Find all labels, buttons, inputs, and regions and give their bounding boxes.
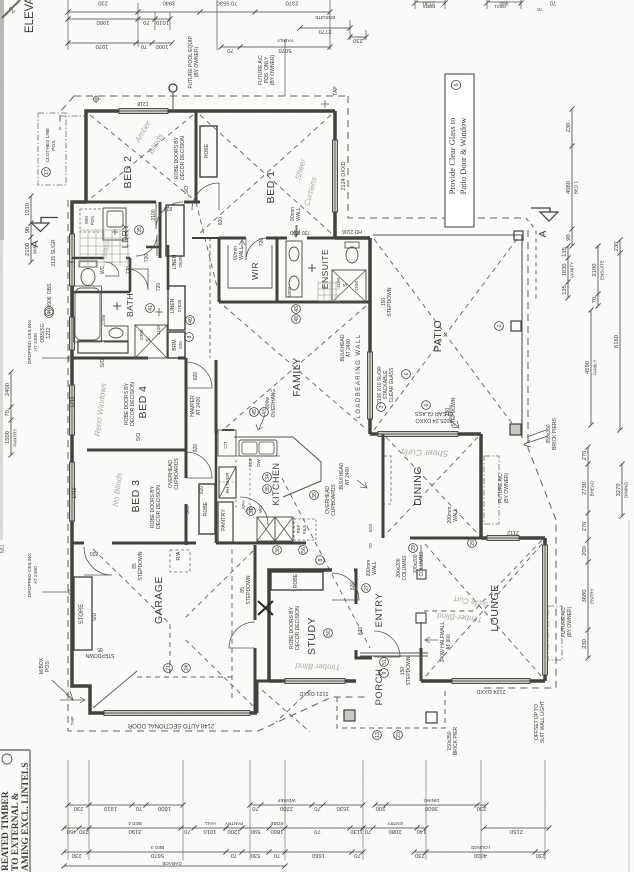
- svg-text:35: 35: [137, 227, 143, 233]
- svg-text:HALL: HALL: [204, 821, 216, 826]
- svg-text:31: 31: [249, 508, 255, 514]
- svg-text:720: 720: [144, 254, 150, 263]
- svg-text:70: 70: [252, 805, 258, 811]
- svg-text:45: 45: [252, 409, 258, 415]
- svg-text:35: 35: [312, 492, 318, 498]
- svg-text:ENTRY: ENTRY: [589, 588, 594, 604]
- svg-text:COLUMNS: COLUMNS: [402, 555, 408, 581]
- svg-text:WIR: WIR: [250, 262, 260, 280]
- svg-text:29: 29: [470, 540, 476, 546]
- svg-text:WM: WM: [84, 216, 89, 224]
- svg-text:CUPBOARDS: CUPBOARDS: [174, 458, 180, 490]
- svg-text:1100: 1100: [336, 278, 342, 289]
- svg-text:2115 SL/GR: 2115 SL/GR: [51, 239, 57, 267]
- svg-text:41: 41: [148, 305, 154, 311]
- svg-text:AMING EXCL. LINTELS: AMING EXCL. LINTELS: [21, 763, 31, 871]
- svg-text:43: 43: [262, 409, 268, 415]
- svg-text:3940: 3940: [163, 0, 176, 6]
- svg-text:Patio Door & Window: Patio Door & Window: [458, 117, 468, 195]
- svg-text:2400: 2400: [5, 383, 11, 396]
- svg-text:29: 29: [411, 545, 417, 551]
- svg-text:2124 DXXD: 2124 DXXD: [341, 161, 347, 190]
- svg-text:3680: 3680: [582, 590, 588, 603]
- svg-text:BED 4: BED 4: [128, 821, 142, 826]
- svg-text:90: 90: [566, 234, 572, 240]
- svg-text:3: 3: [379, 405, 385, 408]
- svg-text:Sheer Curls: Sheer Curls: [400, 447, 448, 459]
- svg-text:720: 720: [259, 238, 265, 247]
- svg-text:70: 70: [354, 852, 360, 858]
- svg-text:230: 230: [72, 852, 82, 858]
- svg-text:DBX1: DBX1: [494, 4, 506, 9]
- svg-text:PANTRY: PANTRY: [221, 509, 227, 531]
- svg-text:(BY OWNER): (BY OWNER): [270, 54, 276, 85]
- svg-text:820: 820: [218, 217, 224, 226]
- svg-text:BED 2: BED 2: [122, 156, 134, 189]
- svg-text:LINEN: LINEN: [170, 298, 176, 313]
- svg-text:STEPDOWN: STEPDOWN: [246, 575, 252, 604]
- svg-text:WALL: WALL: [296, 207, 302, 221]
- svg-text:34: 34: [265, 474, 271, 480]
- svg-text:1218: 1218: [137, 100, 148, 106]
- svg-text:KITCHEN: KITCHEN: [271, 462, 281, 505]
- svg-text:GARAGE: GARAGE: [153, 576, 165, 624]
- svg-text:1800: 1800: [287, 286, 293, 297]
- svg-text:WALL: WALL: [239, 246, 245, 260]
- svg-text:1530: 1530: [337, 805, 350, 811]
- svg-text:ROBE: ROBE: [270, 821, 283, 826]
- svg-text:DW: DW: [256, 459, 261, 467]
- svg-text:DECOR DECISION: DECOR DECISION: [130, 382, 136, 426]
- svg-text:CLEAR GLASS: CLEAR GLASS: [415, 410, 454, 416]
- svg-text:OVERHANG: OVERHANG: [271, 389, 277, 418]
- svg-text:AT 2400: AT 2400: [346, 339, 352, 358]
- svg-text:1212: 1212: [46, 327, 52, 338]
- svg-text:PANTRY: PANTRY: [225, 821, 243, 826]
- svg-text:70: 70: [314, 828, 320, 834]
- svg-text:90: 90: [25, 227, 31, 233]
- svg-text:43: 43: [294, 306, 300, 312]
- svg-text:POS.: POS.: [45, 660, 51, 672]
- svg-text:27620: 27620: [177, 299, 182, 312]
- svg-text:17: 17: [44, 169, 50, 175]
- svg-text:2100: 2100: [592, 264, 598, 277]
- svg-text:230: 230: [614, 242, 620, 252]
- svg-text:S/O: S/O: [136, 433, 142, 442]
- svg-text:70: 70: [592, 297, 598, 303]
- svg-text:1500: 1500: [5, 431, 11, 444]
- svg-text:85: 85: [97, 646, 103, 652]
- svg-text:70: 70: [550, 0, 556, 6]
- svg-text:51: 51: [382, 659, 388, 665]
- svg-text:ROBE: ROBE: [203, 501, 209, 516]
- svg-text:SSS: SSS: [248, 458, 253, 467]
- svg-text:1960: 1960: [97, 19, 110, 25]
- svg-text:STEPDOWN: STEPDOWN: [387, 287, 393, 316]
- svg-text:LDRY: LDRY: [120, 224, 130, 249]
- svg-text:C/T: C/T: [223, 441, 228, 449]
- svg-text:3600: 3600: [425, 805, 438, 811]
- svg-text:70: 70: [365, 828, 371, 834]
- svg-text:230: 230: [477, 805, 487, 811]
- svg-text:REF: REF: [296, 524, 301, 533]
- svg-text:820: 820: [358, 627, 364, 636]
- svg-text:STEPDOWN: STEPDOWN: [138, 551, 144, 580]
- svg-text:56: 56: [301, 547, 307, 553]
- svg-text:(BY OWNER): (BY OWNER): [194, 46, 200, 77]
- svg-text:Timber Blind: Timber Blind: [295, 661, 341, 672]
- svg-text:13: 13: [375, 732, 381, 738]
- svg-text:230: 230: [415, 852, 425, 858]
- svg-text:CLOTHES LINE: CLOTHES LINE: [45, 128, 51, 163]
- svg-text:A: A: [537, 230, 549, 237]
- svg-text:2730: 2730: [582, 482, 588, 495]
- svg-text:70: 70: [184, 828, 190, 834]
- svg-text:WIR: WIR: [32, 244, 37, 254]
- svg-text:5670: 5670: [151, 852, 164, 858]
- svg-text:720: 720: [156, 283, 162, 292]
- svg-text:R/A: R/A: [176, 551, 182, 561]
- svg-text:3270: 3270: [616, 484, 622, 497]
- svg-text:1010: 1010: [25, 203, 31, 216]
- svg-text:OBS: OBS: [47, 283, 53, 294]
- svg-text:2/620: 2/620: [178, 256, 183, 268]
- svg-text:HD 2106: HD 2106: [342, 228, 362, 234]
- svg-text:70: 70: [136, 805, 142, 811]
- svg-text:BHEAD: BHEAD: [589, 480, 594, 497]
- svg-text:FAMILY: FAMILY: [291, 357, 303, 397]
- svg-text:1200: 1200: [228, 828, 241, 834]
- svg-text:2148 AUTO SECTIONAL DOOR: 2148 AUTO SECTIONAL DOOR: [127, 722, 214, 728]
- svg-text:49: 49: [294, 316, 300, 322]
- svg-text:1100: 1100: [354, 281, 360, 292]
- svg-text:2150: 2150: [510, 828, 523, 834]
- svg-text:6160: 6160: [614, 335, 620, 348]
- svg-text:APH: APH: [241, 500, 246, 509]
- svg-text:STEPDOWN: STEPDOWN: [406, 656, 412, 685]
- svg-text:70: 70: [368, 543, 374, 549]
- svg-text:ENSUITE: ENSUITE: [320, 249, 330, 289]
- svg-text:BED 1: BED 1: [265, 171, 277, 204]
- svg-text:70: 70: [537, 7, 543, 12]
- svg-text:2100: 2100: [25, 243, 31, 256]
- svg-text:70: 70: [231, 852, 237, 858]
- svg-text:(BY OWNER): (BY OWNER): [504, 472, 510, 503]
- svg-text:AT 900: AT 900: [446, 634, 452, 650]
- svg-text:4080: 4080: [566, 181, 572, 194]
- svg-text:820: 820: [90, 550, 99, 556]
- svg-text:REATED TIMBER: REATED TIMBER: [1, 791, 11, 871]
- svg-text:WO: WO: [258, 505, 263, 513]
- svg-text:AT 2400: AT 2400: [196, 397, 202, 416]
- svg-text:8: 8: [187, 335, 193, 338]
- svg-text:ELEVA: ELEVA: [24, 0, 36, 33]
- svg-text:820: 820: [350, 582, 356, 591]
- svg-text:S: S: [146, 338, 152, 342]
- svg-text:NG: NG: [0, 544, 6, 553]
- svg-text:610: 610: [368, 524, 374, 532]
- svg-text:0906: 0906: [47, 296, 53, 307]
- svg-text:270: 270: [582, 522, 588, 532]
- svg-text:230: 230: [353, 37, 363, 43]
- svg-text:24: 24: [184, 665, 190, 671]
- svg-text:35: 35: [265, 486, 271, 492]
- svg-text:36: 36: [275, 547, 281, 553]
- svg-text:COLUMNS: COLUMNS: [419, 551, 425, 577]
- svg-text:AT 2300: AT 2300: [33, 566, 39, 584]
- svg-text:1218: 1218: [72, 487, 78, 498]
- svg-text:STORE: STORE: [79, 604, 85, 625]
- svg-text:2121 DXXD: 2121 DXXD: [299, 690, 328, 696]
- svg-text:70: 70: [314, 805, 320, 811]
- svg-text:WD/REF: WD/REF: [277, 798, 295, 803]
- svg-text:DBRS: DBRS: [423, 4, 436, 9]
- svg-text:70: 70: [141, 43, 147, 49]
- svg-text:720 CSD: 720 CSD: [289, 229, 310, 235]
- svg-text:1200: 1200: [101, 314, 107, 325]
- svg-text:6: 6: [454, 83, 460, 86]
- svg-text:ROBE: ROBE: [204, 143, 210, 158]
- svg-text:4590: 4590: [585, 361, 591, 374]
- svg-text:2112: 2112: [507, 529, 519, 535]
- svg-text:ENSUITE: ENSUITE: [315, 15, 335, 20]
- svg-text:2770: 2770: [319, 28, 332, 34]
- svg-text:1218: 1218: [70, 396, 76, 407]
- svg-text:230: 230: [536, 852, 546, 858]
- svg-text:STEPDOWN: STEPDOWN: [85, 652, 114, 658]
- svg-text:230: 230: [582, 639, 588, 649]
- svg-text:2200: 2200: [280, 805, 293, 811]
- svg-text:23: 23: [396, 732, 402, 738]
- svg-text:70: 70: [227, 47, 233, 53]
- svg-text:1100: 1100: [156, 325, 162, 336]
- svg-text:1130: 1130: [350, 828, 362, 834]
- svg-text:1010: 1010: [204, 828, 217, 834]
- svg-text:2100: 2100: [151, 209, 157, 220]
- svg-text:DECOR DECISION: DECOR DECISION: [180, 136, 186, 180]
- svg-text:2: 2: [497, 324, 503, 327]
- svg-text:DINING: DINING: [412, 466, 424, 506]
- svg-text:2370: 2370: [286, 0, 299, 6]
- svg-text:1970: 1970: [96, 43, 109, 49]
- svg-text:S/O: S/O: [184, 186, 190, 195]
- svg-text:27: 27: [364, 585, 370, 591]
- svg-text:WALL: WALL: [453, 508, 459, 522]
- svg-text:DINING: DINING: [423, 798, 440, 803]
- svg-text:1660: 1660: [312, 852, 325, 858]
- svg-text:P&S.: P&S.: [302, 524, 307, 534]
- svg-text:1910: 1910: [104, 805, 117, 811]
- svg-text:S: S: [343, 283, 349, 287]
- svg-text:SUIT WALL LIGHT: SUIT WALL LIGHT: [540, 701, 546, 743]
- svg-text:AT 2400: AT 2400: [345, 467, 351, 486]
- svg-text:PATIO: PATIO: [432, 320, 444, 352]
- svg-text:140: 140: [417, 828, 427, 834]
- svg-text:S/O: S/O: [100, 359, 106, 368]
- svg-text:S/D: S/D: [92, 612, 98, 621]
- svg-text:270: 270: [582, 451, 588, 461]
- svg-text:BRICK PIERS: BRICK PIERS: [552, 418, 558, 450]
- svg-text:230: 230: [566, 123, 572, 133]
- svg-text:230: 230: [98, 0, 108, 6]
- svg-text:4000: 4000: [474, 852, 487, 858]
- svg-text:230: 230: [74, 805, 84, 811]
- svg-text:40: 40: [188, 317, 194, 323]
- svg-text:590: 590: [251, 828, 261, 834]
- svg-text:BED 3: BED 3: [150, 845, 164, 850]
- svg-text:2124 DXXD: 2124 DXXD: [476, 688, 505, 694]
- svg-text:POS.: POS.: [90, 215, 95, 226]
- svg-text:4: 4: [47, 311, 53, 314]
- svg-text:ENSUITE: ENSUITE: [599, 260, 604, 280]
- svg-text:PANTRY: PANTRY: [12, 428, 17, 446]
- svg-text:DECOR DECISION: DECOR DECISION: [295, 606, 301, 650]
- svg-text:3190: 3190: [129, 828, 142, 834]
- svg-text:135: 135: [562, 285, 568, 295]
- svg-text:LOUNGE: LOUNGE: [471, 845, 490, 850]
- svg-text:S/O: S/O: [185, 506, 191, 515]
- svg-text:TO EXTERNAL &: TO EXTERNAL &: [11, 792, 21, 871]
- svg-text:ENTRY: ENTRY: [374, 593, 385, 628]
- svg-text:CUPBOARDS: CUPBOARDS: [331, 484, 337, 516]
- svg-text:AT 2300: AT 2300: [33, 333, 39, 351]
- svg-text:TAP: TAP: [333, 86, 339, 96]
- svg-text:230: 230: [79, 828, 89, 834]
- svg-text:DINING: DINING: [623, 482, 628, 499]
- svg-text:1600: 1600: [158, 805, 171, 811]
- svg-text:BED 4: BED 4: [137, 386, 149, 419]
- svg-text:Provide Clear Glass to: Provide Clear Glass to: [447, 118, 457, 195]
- svg-text:LOADBEARING WALL: LOADBEARING WALL: [356, 333, 362, 418]
- svg-text:720: 720: [126, 266, 132, 275]
- svg-text:(BY OWNER): (BY OWNER): [567, 606, 573, 637]
- svg-text:WALL: WALL: [372, 561, 378, 575]
- svg-text:2080: 2080: [389, 828, 402, 834]
- svg-text:6: 6: [404, 372, 410, 375]
- svg-text:1830: 1830: [562, 264, 568, 277]
- svg-text:BED 1: BED 1: [573, 180, 578, 194]
- svg-text:8: 8: [318, 558, 324, 561]
- svg-text:200: 200: [376, 805, 386, 811]
- svg-text:DROPPED CEILING: DROPPED CEILING: [27, 553, 33, 598]
- svg-text:BED 3: BED 3: [130, 480, 142, 513]
- svg-text:RH OVER: RH OVER: [225, 472, 230, 494]
- svg-text:TAP: TAP: [70, 717, 76, 726]
- svg-text:2025.24 DXXO: 2025.24 DXXO: [415, 417, 453, 423]
- svg-text:50: 50: [326, 630, 332, 636]
- svg-text:1800: 1800: [271, 828, 284, 834]
- svg-text:BRICK PIER: BRICK PIER: [453, 726, 459, 755]
- svg-text:GARAGE: GARAGE: [162, 861, 182, 866]
- svg-text:1010: 1010: [156, 19, 169, 25]
- svg-text:820: 820: [193, 444, 199, 453]
- svg-text:ENTRY: ENTRY: [387, 821, 403, 826]
- svg-text:200: 200: [582, 546, 588, 556]
- svg-text:VANITY: VANITY: [569, 262, 574, 278]
- svg-text:6: 6: [424, 403, 430, 406]
- svg-text:BATH: BATH: [125, 293, 135, 317]
- svg-text:WC: WC: [100, 265, 106, 274]
- svg-text:1000: 1000: [139, 329, 145, 340]
- svg-text:ROBE: ROBE: [293, 573, 299, 588]
- svg-text:STUDY: STUDY: [306, 617, 318, 655]
- svg-text:21: 21: [166, 665, 172, 671]
- svg-text:CLEAR GLASS: CLEAR GLASS: [389, 367, 395, 402]
- svg-text:70 5530: 70 5530: [217, 0, 238, 6]
- svg-text:70: 70: [274, 852, 280, 858]
- svg-text:DROPPED CEILING: DROPPED CEILING: [27, 320, 33, 365]
- svg-text:820: 820: [164, 205, 173, 211]
- svg-text:FAMILY: FAMILY: [592, 360, 597, 376]
- svg-text:820: 820: [199, 486, 205, 495]
- svg-text:9: 9: [382, 671, 388, 674]
- svg-text:70: 70: [143, 19, 149, 25]
- svg-text:135: 135: [562, 247, 568, 257]
- svg-text:DECOR DECISION: DECOR DECISION: [156, 485, 162, 529]
- svg-text:1000: 1000: [156, 43, 169, 49]
- svg-text:620: 620: [178, 341, 183, 349]
- svg-text:POS.: POS.: [51, 139, 57, 150]
- svg-text:70: 70: [5, 410, 11, 416]
- svg-text:530: 530: [251, 852, 261, 858]
- svg-text:820: 820: [193, 372, 199, 381]
